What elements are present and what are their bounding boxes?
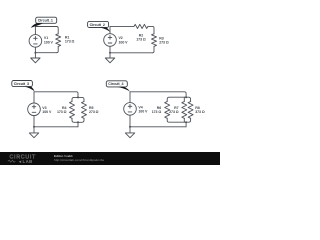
- svg-text:100 V: 100 V: [44, 41, 54, 45]
- svg-text:V1: V1: [44, 36, 48, 40]
- resistor R6: [152, 102, 170, 119]
- ground C1: [31, 53, 40, 63]
- resistor R3: [152, 34, 169, 53]
- wire top rail C2: [110, 25, 134, 27]
- svg-text:100 V: 100 V: [138, 109, 148, 113]
- svg-text:http://circuitlab.com/c6mndkpa: http://circuitlab.com/c6mndkpa1m4w: [54, 158, 105, 162]
- wire source bottom stub C3: [33, 116, 35, 127]
- node junction C2: [109, 52, 111, 54]
- wire split bar bottom C4: [167, 118, 190, 122]
- wire bottom rail C1: [35, 52, 56, 54]
- svg-text:173 Ω: 173 Ω: [136, 37, 146, 41]
- svg-text:Circuit_4: Circuit_4: [108, 82, 123, 86]
- node split top C3: [77, 96, 79, 98]
- wire R2 to corner C2: [148, 26, 154, 33]
- wire split bar top C3: [72, 97, 84, 101]
- svg-text:173 Ω: 173 Ω: [65, 40, 75, 44]
- svg-text:100 V: 100 V: [42, 110, 52, 114]
- ground C4: [125, 127, 134, 138]
- wire split bar top C4: [167, 97, 190, 101]
- voltage source V1: [29, 35, 53, 48]
- wire merge feed C4: [185, 122, 187, 127]
- ground C2: [105, 53, 114, 63]
- wire source bottom stub C1: [34, 47, 36, 53]
- resistor R2: [134, 24, 148, 41]
- svg-text:Circuit_3: Circuit_3: [14, 82, 29, 86]
- resistor R5: [82, 102, 99, 119]
- wire split bar bottom C3: [72, 118, 84, 122]
- node junction C4: [129, 126, 131, 128]
- annotation Circuit_4: [106, 81, 130, 92]
- wire top rail C3: [34, 92, 78, 98]
- wire source top stub C2: [109, 26, 111, 33]
- annotation Circuit_2: [88, 21, 110, 31]
- annotation Circuit_3: [12, 81, 35, 92]
- svg-text:173 Ω: 173 Ω: [57, 110, 67, 114]
- wire bottom rail C4: [130, 126, 186, 128]
- ground C3: [29, 127, 38, 138]
- svg-text:273 Ω: 273 Ω: [159, 41, 169, 45]
- resistor R1: [56, 34, 75, 53]
- svg-text:173 Ω: 173 Ω: [152, 110, 162, 114]
- svg-text:◄LAB: ◄LAB: [18, 159, 33, 164]
- voltage source V2: [104, 34, 128, 47]
- svg-text:273 Ω: 273 Ω: [89, 110, 99, 114]
- wire bottom rail C3: [34, 126, 78, 128]
- voltage source V3: [28, 103, 52, 116]
- node merge bottom C4: [185, 121, 187, 123]
- voltage source V4: [124, 103, 148, 116]
- wire top rail C4: [130, 92, 186, 97]
- svg-text:Circuit_2: Circuit_2: [90, 23, 105, 27]
- svg-text:Circuit_1: Circuit_1: [38, 19, 53, 23]
- resistor R4: [57, 102, 75, 119]
- node split top C4: [185, 96, 187, 98]
- wire source bottom stub C2: [109, 46, 111, 53]
- wire source top stub C4: [129, 92, 131, 103]
- resistor R8: [188, 102, 205, 119]
- svg-text:100 V: 100 V: [119, 41, 129, 45]
- svg-text:373 Ω: 373 Ω: [195, 110, 205, 114]
- wire source bottom stub C4: [129, 115, 131, 127]
- annotation Circuit_1: [31, 17, 57, 28]
- wire bottom rail C2: [110, 52, 153, 54]
- wire R7 top stub C4: [183, 97, 185, 101]
- svg-text:273 Ω: 273 Ω: [169, 110, 179, 114]
- resistor R7: [169, 102, 187, 119]
- node merge bottom C3: [77, 121, 79, 123]
- wire top rail C1: [35, 27, 58, 34]
- wire merge feed C3: [77, 122, 79, 127]
- node junction C1: [34, 52, 36, 54]
- wire source top stub C1: [34, 27, 36, 35]
- wire R7 bottom stub C4: [183, 118, 185, 122]
- node junction C3: [33, 126, 35, 128]
- wire source top stub C3: [33, 92, 35, 103]
- svg-text:V2: V2: [119, 36, 123, 40]
